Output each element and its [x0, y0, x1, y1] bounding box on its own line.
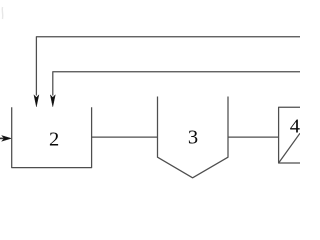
- tank 3 (open-top clarifier with V bottom): [158, 97, 229, 178]
- wire: recycle line B (inner): [53, 72, 300, 96]
- tank 2 (open-top rectangle): [12, 107, 92, 167]
- arrowhead: recycle A into tank 2: [34, 95, 39, 107]
- arrowhead: feed inlet into tank 2: [2, 136, 12, 142]
- svg-text:3: 3: [188, 127, 198, 149]
- faint edge artifact (clipped glyph, top-left): [1, 7, 4, 19]
- wire: feed inlet line: [0, 137, 4, 139]
- svg-text:2: 2: [49, 129, 59, 151]
- wire: recycle line A (outer, top): [36, 37, 300, 96]
- wire: tank 2 to tank 3: [92, 136, 158, 138]
- unit 4 box (clipped at right edge): [279, 107, 300, 163]
- diagonal inside unit 4: [279, 133, 300, 163]
- svg-text:4: 4: [290, 115, 300, 137]
- wire: tank 3 to unit 4: [228, 136, 279, 138]
- arrowhead: recycle B into tank 2: [50, 95, 55, 107]
